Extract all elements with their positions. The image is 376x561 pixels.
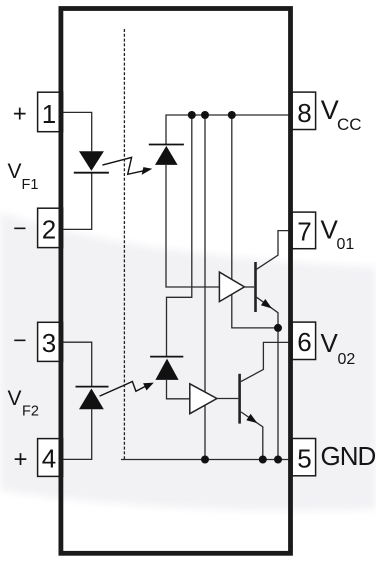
wire LED1 cathode to pin2 bbox=[60, 173, 92, 230]
svg-text:1: 1 bbox=[42, 99, 56, 129]
svg-text:5: 5 bbox=[297, 444, 311, 474]
svg-text:+: + bbox=[13, 101, 27, 128]
grey swoosh band bbox=[0, 212, 376, 511]
junction Vcc dot 1 bbox=[188, 111, 196, 119]
isolation barrier dotted line bbox=[123, 29, 125, 460]
transistor Q2 bbox=[240, 342, 293, 459]
label GND bbox=[321, 441, 376, 471]
pin 3 box bbox=[38, 322, 63, 361]
pin 2 box bbox=[38, 208, 63, 247]
junction Vcc dot 2 bbox=[201, 111, 209, 119]
pin 4 box bbox=[38, 439, 63, 477]
wire photodiode1 anode to amp1 input bbox=[166, 165, 219, 287]
transistor Q1 bbox=[256, 231, 293, 328]
wire Vcc to photodiode2 cathode bbox=[167, 115, 192, 357]
op-amp U1A bbox=[219, 272, 244, 302]
label VCC bbox=[321, 95, 362, 134]
junction GND dot 2 bbox=[259, 456, 267, 464]
junction GND dot 1 bbox=[201, 456, 209, 464]
wire pin3 to LED2 cathode bbox=[60, 342, 92, 386]
svg-text:V: V bbox=[321, 328, 339, 358]
LED D1 bbox=[74, 151, 109, 173]
label VF1 bbox=[8, 160, 39, 193]
wire amp2 output to Q2 base bbox=[217, 398, 238, 400]
wire emitter node to GND bbox=[277, 328, 279, 460]
svg-text:3: 3 bbox=[42, 328, 56, 358]
wire amp1 output to Q1 base bbox=[244, 286, 254, 288]
wire Vcc rail bbox=[166, 115, 293, 145]
svg-text:CC: CC bbox=[337, 115, 362, 134]
photodiode PD1 bbox=[149, 145, 184, 165]
svg-text:8: 8 bbox=[297, 98, 311, 128]
wire pin1 to LED anode bbox=[60, 112, 92, 151]
pin 8 box bbox=[292, 92, 316, 129]
svg-text:4: 4 bbox=[42, 444, 56, 474]
svg-text:2: 2 bbox=[42, 215, 56, 245]
photodiode PD2 bbox=[150, 357, 183, 380]
svg-text:7: 7 bbox=[297, 217, 311, 247]
svg-text:V: V bbox=[8, 160, 22, 183]
svg-text:02: 02 bbox=[338, 351, 356, 368]
light arrow channel 1 bbox=[102, 157, 152, 175]
op-amp U1B bbox=[190, 384, 217, 414]
junction GND dot 3 bbox=[274, 456, 282, 464]
label V01 bbox=[321, 214, 355, 253]
light arrow channel 2 bbox=[100, 382, 154, 397]
junction emitter node dot bbox=[274, 324, 282, 332]
wire LED2 anode to pin4 bbox=[60, 409, 92, 459]
svg-text:−: − bbox=[13, 215, 26, 241]
label V02 bbox=[321, 328, 356, 368]
LED D2 bbox=[76, 387, 109, 410]
svg-text:6: 6 bbox=[297, 327, 311, 357]
svg-text:F1: F1 bbox=[22, 177, 39, 193]
svg-text:V: V bbox=[8, 387, 22, 410]
pin 6 box bbox=[292, 322, 316, 359]
junction Vcc dot 3 bbox=[228, 111, 236, 119]
pin 1 box bbox=[38, 92, 63, 132]
label VF2 bbox=[8, 387, 39, 420]
svg-text:+: + bbox=[13, 446, 27, 473]
pin 5 box bbox=[292, 439, 316, 476]
svg-text:−: − bbox=[13, 327, 26, 353]
wire GND rail bbox=[121, 459, 293, 461]
svg-text:01: 01 bbox=[337, 236, 355, 253]
IC package outline bbox=[61, 9, 291, 554]
wire Vcc to amp1 and emitter node bbox=[232, 115, 278, 328]
svg-text:GND: GND bbox=[321, 441, 376, 471]
pin 7 box bbox=[292, 212, 316, 249]
wire photodiode2 anode to amp2 input bbox=[167, 380, 190, 399]
wire Vcc to amp2 and GND bbox=[204, 115, 206, 460]
svg-text:F2: F2 bbox=[22, 404, 39, 420]
